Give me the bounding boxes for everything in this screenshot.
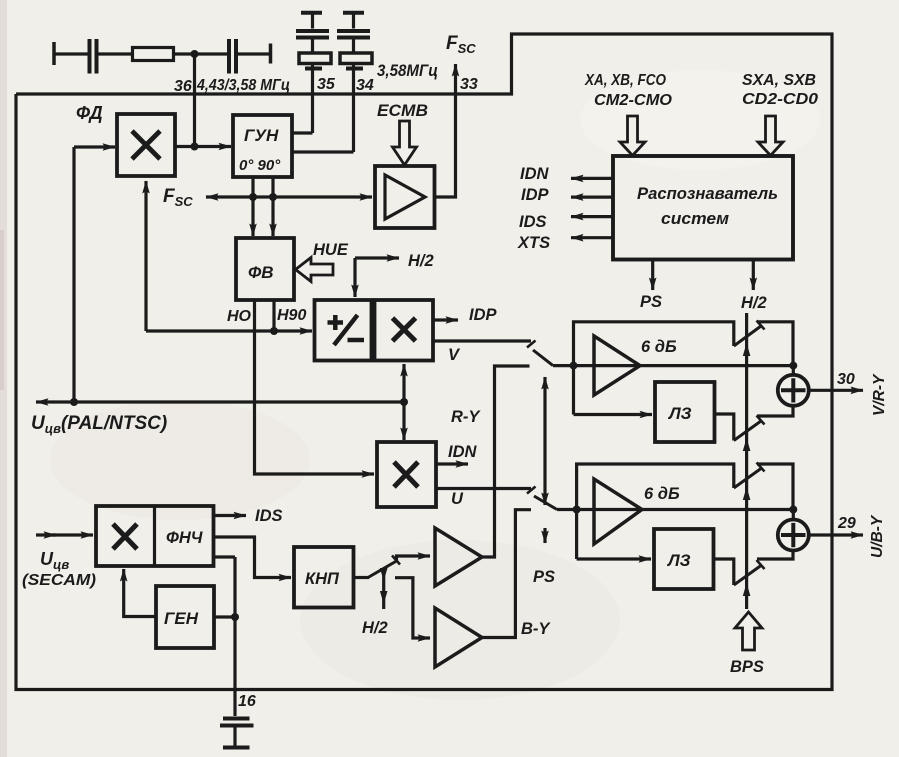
label GEN bbox=[164, 609, 199, 628]
svg-text:16: 16 bbox=[238, 693, 256, 710]
multiplier IDP demod box bbox=[375, 300, 434, 361]
label IDN flag bbox=[520, 165, 550, 183]
wire ch2 bypass frame top bbox=[577, 464, 734, 559]
system recognizer box U2 bbox=[613, 156, 793, 260]
wire LZ1 contact to summer bbox=[757, 406, 793, 416]
wire H2-BPS control line bbox=[745, 313, 748, 609]
wire GEN right out bbox=[214, 615, 235, 618]
label LZ2 bbox=[666, 551, 691, 570]
wire V output to switch bbox=[433, 339, 531, 342]
wire PAL tap up into IDP demod bbox=[402, 364, 405, 402]
label H/2 below recognizer bbox=[741, 294, 767, 312]
svg-text:ФНЧ: ФНЧ bbox=[166, 529, 203, 547]
bus arrow ECMB into amp bbox=[393, 121, 417, 165]
label IDS flag bbox=[519, 213, 547, 231]
svg-text:IDS: IDS bbox=[519, 213, 547, 231]
svg-text:ВРS: ВРS bbox=[730, 658, 764, 676]
capacitor C3 pin16 bbox=[220, 719, 254, 748]
svg-text:V/R-Y: V/R-Y bbox=[871, 373, 888, 416]
label Fsc top bbox=[446, 33, 476, 56]
delay line LZ1 box bbox=[655, 382, 715, 442]
svg-text:R-Y: R-Y bbox=[451, 408, 481, 426]
capacitor C1 bbox=[90, 39, 97, 74]
label LZ1 bbox=[667, 404, 692, 423]
scan edge artifact left bbox=[0, 0, 7, 757]
label PS below recognizer bbox=[640, 293, 662, 311]
wire output pin30 bbox=[809, 389, 863, 392]
node Fsc line left tap bbox=[249, 193, 257, 201]
label IDP out bbox=[469, 306, 498, 324]
svg-text:Н/2: Н/2 bbox=[362, 619, 388, 637]
svg-text:CD2-CD0: CD2-CD0 bbox=[742, 91, 818, 108]
node GEN output join bbox=[231, 613, 239, 621]
label SXA SXB bbox=[742, 72, 816, 89]
svg-text:33: 33 bbox=[460, 76, 478, 93]
label BPS bbox=[730, 658, 764, 676]
wire top RC network bbox=[54, 52, 270, 55]
arrowhead control ch1 switch bbox=[743, 343, 751, 356]
svg-text:ФВ: ФВ bbox=[248, 263, 274, 282]
wire XTS flag out bbox=[571, 236, 613, 239]
switch S5 bypass arm ch2 bbox=[734, 463, 765, 489]
wire FV out H90 bbox=[272, 300, 275, 331]
wire KNP out to switch bbox=[354, 576, 370, 579]
svg-text:ХА, ХВ, FCO: ХА, ХВ, FCO bbox=[584, 72, 666, 89]
svg-text:3,58МГц: 3,58МГц bbox=[377, 61, 438, 80]
svg-text:4,43/3,58 МГц: 4,43/3,58 МГц bbox=[196, 77, 290, 94]
svg-text:РS: РS bbox=[533, 568, 555, 586]
wire Fsc internal line bbox=[206, 195, 372, 198]
svg-text:ЛЗ: ЛЗ bbox=[667, 404, 692, 423]
label B-Y bbox=[521, 620, 551, 638]
wire LZ2 out bbox=[714, 559, 734, 585]
label 4,43/3,58 MHz bbox=[196, 77, 290, 94]
wire GUN out 0deg down to FV bbox=[251, 177, 254, 236]
label PS control bbox=[533, 568, 555, 586]
switch S2 bypass arm bbox=[734, 321, 765, 347]
svg-text:(SECAM): (SECAM) bbox=[22, 572, 96, 589]
svg-text:ФД: ФД bbox=[76, 103, 103, 123]
label HUE bbox=[313, 241, 349, 259]
label IDS output bbox=[255, 507, 283, 525]
resistor R1 bbox=[133, 48, 174, 61]
label U/B-Y output bbox=[869, 514, 886, 558]
wire FD input bbox=[74, 145, 115, 148]
svg-text:U/В-Y: U/В-Y bbox=[869, 514, 886, 558]
wire output pin29 bbox=[809, 533, 863, 536]
svg-text:6 дБ: 6 дБ bbox=[641, 338, 677, 356]
capacitor C2 bbox=[229, 39, 236, 74]
svg-text:КНП: КНП bbox=[305, 570, 340, 588]
wire H90 line into pm box bbox=[146, 329, 312, 332]
wire GEN to multiplier bbox=[124, 569, 156, 617]
wire ch1 LZ input bbox=[574, 413, 653, 416]
oscillator GEN box bbox=[156, 586, 214, 648]
arrowhead control LZ1 switch bbox=[743, 438, 751, 451]
svg-text:ЕСМВ: ЕСМВ bbox=[377, 102, 428, 120]
svg-text:РS: РS bbox=[640, 293, 662, 311]
pm plus-minus box bbox=[315, 300, 372, 361]
label U bbox=[451, 490, 464, 508]
wire ch2 summer feed bbox=[792, 510, 795, 520]
VCO GUN box bbox=[233, 115, 292, 177]
node H90 join bbox=[270, 327, 278, 335]
svg-text:0° 90°: 0° 90° bbox=[239, 157, 281, 174]
label FD bbox=[76, 103, 103, 123]
bus arrow input XA XB FCO bbox=[620, 116, 645, 156]
svg-text:ГЕН: ГЕН bbox=[164, 609, 199, 628]
wire H2 tap to pm box bbox=[355, 258, 399, 297]
svg-text:IDS: IDS bbox=[255, 507, 283, 525]
label XTS flag bbox=[517, 234, 550, 252]
svg-text:ХТS: ХТS bbox=[517, 234, 550, 252]
bus arrow input SXA SXB bbox=[758, 116, 783, 156]
wire H2 out bottom bbox=[752, 260, 755, 291]
wire U output to switch bbox=[436, 487, 531, 490]
wire PS out bottom bbox=[651, 260, 654, 291]
wire IDN output bbox=[436, 462, 468, 465]
svg-text:34: 34 bbox=[356, 77, 374, 94]
wire ch2 bypass right drop bbox=[757, 464, 793, 507]
label FV bbox=[248, 263, 274, 282]
svg-text:систем: систем bbox=[661, 209, 729, 228]
delay line LZ2 box bbox=[654, 529, 714, 589]
multiplier-LPF combined box SECAM bbox=[96, 506, 214, 566]
svg-text:НО: НО bbox=[227, 308, 252, 325]
svg-text:IDN: IDN bbox=[448, 443, 478, 461]
wire IDS flag out bbox=[571, 215, 613, 218]
svg-text:35: 35 bbox=[317, 76, 336, 93]
label IDN out bbox=[448, 443, 478, 461]
wire SECAM input bbox=[36, 533, 93, 536]
label V/R-Y output bbox=[871, 373, 888, 416]
switch S3 LZ1 arm bbox=[734, 416, 765, 441]
summer ch2 bbox=[778, 520, 809, 551]
wire GUN out 90deg down to FV bbox=[271, 177, 274, 236]
svg-text:U: U bbox=[451, 490, 464, 508]
node ch2 frame left bbox=[573, 506, 581, 514]
wire upper contact to R-Y amp bbox=[397, 556, 431, 561]
label XA XB FCO bbox=[584, 72, 666, 89]
label pin 35 bbox=[317, 76, 336, 93]
node ch1 frame left bbox=[570, 362, 578, 370]
wire amp out to pin33 bbox=[435, 64, 456, 197]
label pin 16 bbox=[238, 693, 256, 710]
wire IDN flag out bbox=[571, 177, 613, 180]
wire ch1 summer feed bbox=[792, 366, 795, 375]
svg-text:SXA, SXB: SXA, SXB bbox=[742, 72, 816, 89]
label Ucv SECAM line1 bbox=[40, 549, 69, 572]
label CD2-CD0 bbox=[742, 91, 818, 108]
label pin 33 bbox=[460, 76, 478, 93]
svg-text:В-Y: В-Y bbox=[521, 620, 551, 638]
node pin36 wire to GUN wire bbox=[191, 143, 199, 151]
label pin 29 bbox=[837, 515, 856, 532]
node ch1 summer junction bbox=[789, 362, 797, 370]
node ch2 summer junction bbox=[789, 506, 797, 514]
svg-text:30: 30 bbox=[837, 371, 855, 388]
svg-text:Распознаватель: Распознаватель bbox=[637, 184, 778, 203]
amplifier ECMB box bbox=[375, 166, 435, 228]
label pin 30 bbox=[837, 371, 855, 388]
wire PAL riser to FD bbox=[72, 147, 75, 402]
summer ch1 bbox=[778, 375, 809, 406]
label recognizer line2 bbox=[661, 209, 729, 228]
amplifier 6dB ch2 bbox=[594, 479, 642, 544]
wire R-Y from SECAM amp riser bbox=[482, 366, 530, 557]
bus arrow HUE into FV bbox=[296, 258, 334, 282]
label R-Y bbox=[451, 408, 481, 426]
svg-text:IDР: IDР bbox=[469, 306, 498, 324]
switch S7 SECAM arm bbox=[368, 556, 400, 578]
label FNCH bbox=[166, 529, 203, 547]
svg-text:ГУН: ГУН bbox=[244, 126, 279, 145]
wire LPF cap stub bbox=[214, 555, 236, 558]
label H/2 control S7 bbox=[362, 619, 388, 637]
wire ch2 LZ input bbox=[577, 557, 651, 560]
amplifier B-Y SECAM bbox=[435, 608, 482, 667]
multiplier IDN demod box bbox=[377, 442, 436, 507]
wire feedback to FD bottom bbox=[144, 181, 147, 331]
svg-text:Н90: Н90 bbox=[277, 307, 306, 324]
label GUN bbox=[244, 126, 279, 145]
wire ch2 main line bbox=[557, 508, 793, 511]
wire B-Y riser to switch bbox=[482, 510, 531, 638]
svg-text:Н/2: Н/2 bbox=[408, 252, 434, 270]
svg-text:HUE: HUE bbox=[313, 241, 349, 259]
wire FD to GUN bbox=[175, 145, 231, 148]
label pin 36 bbox=[174, 78, 192, 95]
label 6dB ch2 bbox=[644, 485, 680, 503]
amplifier R-Y SECAM bbox=[435, 528, 482, 586]
label Ucv SECAM line2 bbox=[22, 572, 96, 589]
svg-text:36: 36 bbox=[174, 78, 192, 95]
label 6dB ch1 bbox=[641, 338, 677, 356]
svg-text:IDР: IDР bbox=[521, 186, 550, 204]
wire PS switch control line bbox=[543, 377, 546, 543]
label pin 34 bbox=[356, 77, 374, 94]
outer chip border bbox=[16, 34, 832, 690]
amplifier 6dB ch1 bbox=[594, 336, 640, 395]
quartz crystal X2 bbox=[337, 13, 372, 152]
node at R1/C2 junction bbox=[191, 50, 199, 58]
label Ucv PAL/NTSC bbox=[31, 413, 167, 436]
label IDP flag bbox=[521, 186, 550, 204]
switch S6 LZ2 arm bbox=[734, 560, 765, 585]
multiplier FD box bbox=[117, 114, 175, 176]
wire pin36 vertical bbox=[193, 54, 196, 147]
label H90 bbox=[277, 307, 306, 324]
wire ch1 bypass right drop bbox=[757, 322, 793, 363]
node Fsc line right tap bbox=[269, 193, 277, 201]
label H0 bbox=[227, 308, 252, 325]
switch S1 V input contact bbox=[527, 341, 553, 366]
svg-text:ЛЗ: ЛЗ bbox=[666, 551, 691, 570]
label H/2 near FV bbox=[408, 252, 434, 270]
svg-text:29: 29 bbox=[837, 515, 856, 532]
label CM2-CM0 bbox=[594, 92, 672, 109]
arrowhead control LZ2 switch bbox=[743, 583, 751, 596]
wire LZ2 contact to summer bbox=[757, 551, 793, 560]
wire FV out H0 to IDN demod bbox=[255, 300, 375, 474]
svg-text:6 дБ: 6 дБ bbox=[644, 485, 680, 503]
wire pin16 line bbox=[233, 557, 236, 716]
svg-text:Н/2: Н/2 bbox=[741, 294, 767, 312]
terminal bar left bbox=[52, 42, 56, 65]
wire ch1 bypass frame top bbox=[574, 322, 734, 415]
label V bbox=[448, 346, 461, 364]
label Fsc mid bbox=[163, 186, 193, 209]
wire IDP flag out bbox=[571, 196, 613, 199]
label KNP bbox=[305, 570, 340, 588]
wire LPF to KNP bbox=[214, 537, 292, 578]
wire X1 to GUN bbox=[292, 131, 313, 134]
bus arrow BPS up bbox=[735, 612, 762, 650]
wire IDS output bbox=[214, 514, 247, 517]
wire ch1 main line bbox=[553, 364, 793, 367]
wire PAL bus bbox=[36, 400, 404, 403]
label ECMB bbox=[377, 102, 428, 120]
wire H2 control of S7 bbox=[380, 568, 388, 609]
wire LZ1 out bbox=[715, 414, 734, 441]
phase shifter FV box bbox=[236, 238, 294, 300]
quartz crystal X1 bbox=[296, 13, 331, 133]
svg-text:IDN: IDN bbox=[520, 165, 550, 183]
wire IDP output bbox=[433, 318, 458, 321]
wire PAL tap down into IDN demod bbox=[402, 402, 405, 440]
node PAL bus demod tap bbox=[400, 398, 408, 406]
arrowhead control ch2 switch bbox=[743, 487, 751, 500]
wire X2 to GUN bbox=[292, 150, 354, 153]
label GUN phases bbox=[239, 157, 281, 174]
label recognizer line1 bbox=[637, 184, 778, 203]
label 3,58 MHz bbox=[377, 61, 438, 80]
wire lower contact to B-Y amp bbox=[395, 578, 430, 638]
node PAL bus at x74 bbox=[70, 398, 78, 406]
svg-text:СМ2-СМО: СМ2-СМО bbox=[594, 92, 672, 109]
switch S4 U input contact bbox=[527, 487, 557, 510]
terminal bar right bbox=[269, 44, 273, 64]
burst gate KNP box bbox=[294, 547, 354, 608]
